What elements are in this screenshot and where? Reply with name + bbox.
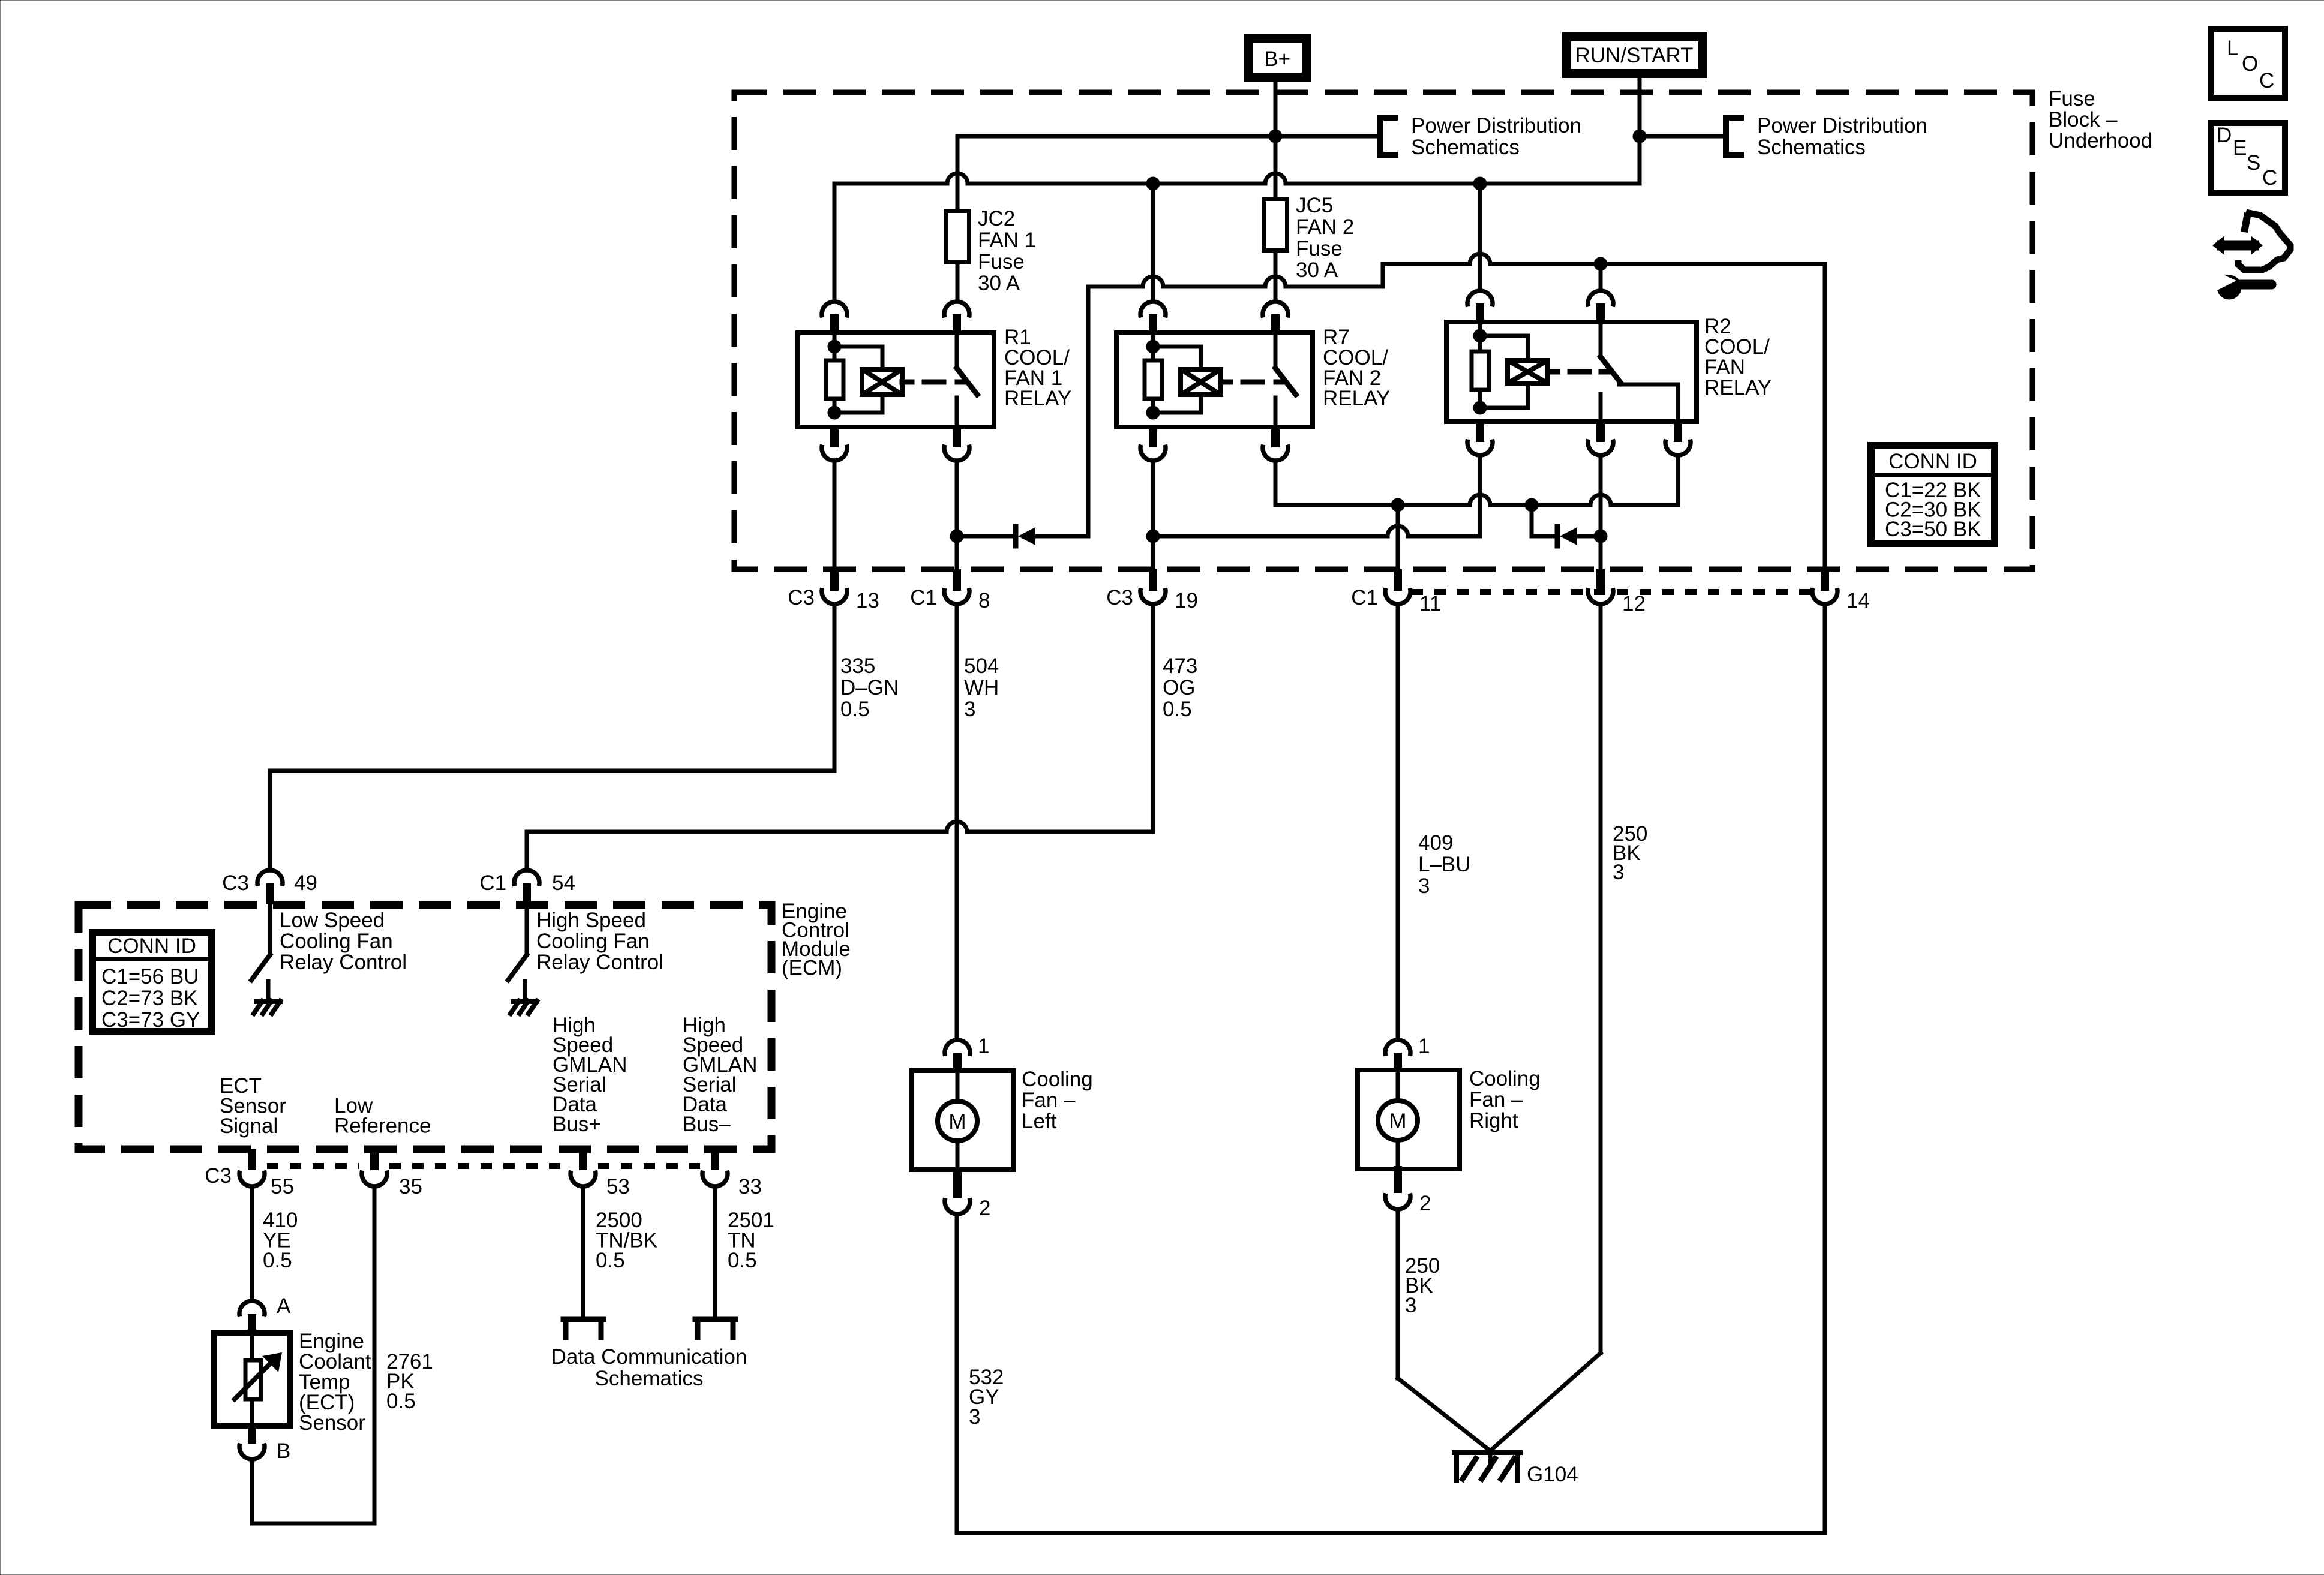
svg-text:Relay Control: Relay Control <box>280 951 407 974</box>
svg-text:M: M <box>1389 1110 1406 1133</box>
svg-text:CONN ID: CONN ID <box>1888 450 1977 473</box>
svg-text:55: 55 <box>271 1175 294 1198</box>
svg-text:Block –: Block – <box>2049 108 2118 131</box>
svg-text:54: 54 <box>552 871 575 895</box>
svg-text:0.5: 0.5 <box>596 1249 625 1272</box>
svg-text:C3=73 GY: C3=73 GY <box>101 1008 200 1032</box>
svg-text:WH: WH <box>964 676 999 699</box>
svg-text:E: E <box>2233 136 2247 160</box>
svg-text:Cooling: Cooling <box>1469 1067 1541 1090</box>
svg-text:FAN 1: FAN 1 <box>978 229 1036 252</box>
svg-text:Schematics: Schematics <box>1411 136 1520 159</box>
svg-text:M: M <box>948 1110 966 1134</box>
svg-text:High Speed: High Speed <box>536 909 646 932</box>
svg-text:53: 53 <box>606 1175 630 1198</box>
svg-text:12: 12 <box>1622 592 1646 615</box>
svg-text:B: B <box>277 1439 290 1463</box>
svg-text:409: 409 <box>1418 831 1453 855</box>
svg-text:C: C <box>2262 166 2277 190</box>
svg-text:49: 49 <box>294 871 317 895</box>
svg-text:C1: C1 <box>479 871 506 895</box>
svg-text:30 A: 30 A <box>978 272 1020 295</box>
svg-text:13: 13 <box>856 589 879 612</box>
svg-text:1: 1 <box>978 1035 989 1058</box>
svg-text:Fan –: Fan – <box>1469 1088 1523 1111</box>
svg-text:3: 3 <box>1405 1294 1416 1317</box>
svg-text:C1: C1 <box>910 586 937 609</box>
svg-text:C3=50 BK: C3=50 BK <box>1885 518 1981 541</box>
svg-text:0.5: 0.5 <box>1163 698 1192 721</box>
svg-text:8: 8 <box>978 589 990 612</box>
svg-text:Bus–: Bus– <box>683 1113 731 1136</box>
svg-text:11: 11 <box>1419 592 1441 615</box>
svg-text:Left: Left <box>1022 1110 1057 1133</box>
svg-text:3: 3 <box>964 698 975 721</box>
svg-text:0.5: 0.5 <box>728 1249 757 1272</box>
svg-text:Low Speed: Low Speed <box>280 909 385 932</box>
svg-text:0.5: 0.5 <box>263 1249 292 1272</box>
svg-text:0.5: 0.5 <box>386 1390 416 1413</box>
svg-text:C3: C3 <box>788 586 815 609</box>
svg-text:Cooling Fan: Cooling Fan <box>536 930 650 953</box>
svg-text:RELAY: RELAY <box>1323 387 1390 410</box>
svg-text:Sensor: Sensor <box>299 1411 365 1435</box>
svg-text:Underhood: Underhood <box>2049 129 2152 152</box>
svg-text:C1=56 BU: C1=56 BU <box>101 965 199 988</box>
svg-text:D–GN: D–GN <box>840 676 899 699</box>
svg-text:JC2: JC2 <box>978 207 1015 230</box>
svg-text:Fan –: Fan – <box>1022 1089 1076 1112</box>
svg-text:C3: C3 <box>222 871 249 895</box>
svg-text:FAN 2: FAN 2 <box>1296 215 1354 239</box>
svg-text:504: 504 <box>964 654 999 678</box>
svg-text:335: 335 <box>840 654 875 678</box>
svg-text:S: S <box>2247 151 2260 175</box>
svg-text:Bus+: Bus+ <box>553 1113 601 1136</box>
svg-text:L–BU: L–BU <box>1418 853 1471 876</box>
svg-text:2: 2 <box>979 1197 990 1220</box>
svg-text:O: O <box>2242 52 2258 76</box>
svg-text:A: A <box>277 1294 291 1318</box>
svg-text:Cooling: Cooling <box>1022 1068 1093 1091</box>
svg-text:Power Distribution: Power Distribution <box>1411 114 1581 137</box>
svg-text:35: 35 <box>399 1175 422 1198</box>
svg-text:D: D <box>2217 124 2232 147</box>
svg-text:G104: G104 <box>1527 1463 1578 1486</box>
svg-text:33: 33 <box>738 1175 762 1198</box>
svg-text:1: 1 <box>1418 1035 1430 1058</box>
svg-text:Schematics: Schematics <box>595 1367 704 1390</box>
svg-text:473: 473 <box>1163 654 1197 678</box>
svg-text:19: 19 <box>1175 589 1198 612</box>
svg-text:Relay Control: Relay Control <box>536 951 663 974</box>
svg-text:Fuse: Fuse <box>1296 237 1343 260</box>
svg-text:2: 2 <box>1419 1192 1431 1215</box>
svg-text:Reference: Reference <box>334 1114 431 1138</box>
svg-text:B+: B+ <box>1264 47 1290 71</box>
svg-text:3: 3 <box>969 1405 980 1429</box>
svg-text:RELAY: RELAY <box>1004 387 1071 410</box>
svg-text:(ECM): (ECM) <box>782 957 842 980</box>
svg-text:C3: C3 <box>205 1164 232 1188</box>
svg-text:0.5: 0.5 <box>840 698 870 721</box>
svg-text:Schematics: Schematics <box>1757 136 1866 159</box>
svg-text:Fuse: Fuse <box>2049 87 2095 110</box>
svg-text:OG: OG <box>1163 676 1195 699</box>
svg-text:RUN/START: RUN/START <box>1575 44 1693 67</box>
svg-text:C1: C1 <box>1351 586 1378 609</box>
svg-text:Data Communication: Data Communication <box>551 1345 747 1369</box>
svg-text:RELAY: RELAY <box>1704 376 1771 399</box>
svg-text:14: 14 <box>1846 589 1870 612</box>
svg-text:3: 3 <box>1418 874 1430 898</box>
svg-text:Signal: Signal <box>220 1114 278 1138</box>
svg-text:Right: Right <box>1469 1109 1518 1132</box>
svg-text:L: L <box>2227 37 2238 60</box>
svg-text:Fuse: Fuse <box>978 250 1025 273</box>
svg-text:3: 3 <box>1613 861 1624 884</box>
svg-text:C3: C3 <box>1106 586 1133 609</box>
svg-text:C2=73 BK: C2=73 BK <box>101 987 198 1010</box>
svg-text:CONN ID: CONN ID <box>107 934 196 958</box>
svg-text:Power Distribution: Power Distribution <box>1757 114 1927 137</box>
svg-text:Cooling Fan: Cooling Fan <box>280 930 393 953</box>
svg-text:C: C <box>2259 69 2274 92</box>
svg-text:JC5: JC5 <box>1296 194 1333 217</box>
svg-text:30 A: 30 A <box>1296 259 1338 282</box>
